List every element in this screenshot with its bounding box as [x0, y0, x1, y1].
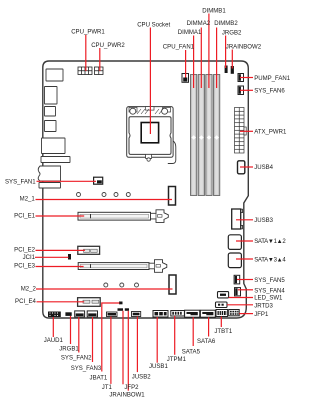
callout line SYS_FAN6	[240, 89, 253, 91]
DIMM slot DIMMB2	[214, 75, 220, 196]
connector SYS_FAN3	[87, 311, 97, 317]
svg-text:PCI_E2: PCI_E2	[14, 248, 35, 254]
M2_1 standoff holes	[77, 193, 131, 197]
connector JT1	[107, 312, 118, 317]
callout line JUSB4	[240, 166, 253, 168]
DIMM slot DIMMA2	[198, 75, 204, 196]
board outline	[43, 61, 249, 318]
svg-text:DIMMB2: DIMMB2	[214, 21, 238, 27]
callout line JTPM1	[174, 316, 176, 355]
svg-text:SATA▼1▲2: SATA▼1▲2	[254, 239, 286, 245]
callout line JRAINBOW2	[231, 50, 233, 69]
io block 7 audio	[38, 166, 60, 181]
connector JCI1	[68, 254, 71, 260]
connector SYS_FAN5	[234, 275, 240, 284]
svg-text:JRAINBOW1: JRAINBOW1	[109, 393, 145, 399]
callout line SYS_FAN1	[37, 180, 97, 182]
svg-text:JTPM1: JTPM1	[167, 357, 187, 363]
callout line SATA34	[236, 258, 253, 260]
svg-text:SYS_FAN1: SYS_FAN1	[5, 180, 36, 186]
svg-text:PCI_E4: PCI_E4	[15, 299, 36, 305]
svg-text:SATA5: SATA5	[182, 350, 201, 356]
callout line DIMMA1	[193, 36, 195, 89]
svg-text:SYS_FAN5: SYS_FAN5	[254, 278, 285, 284]
callout line PCI_E4	[37, 301, 85, 303]
callout line CPU_FAN1	[185, 50, 187, 78]
callout line LED_SW1	[229, 297, 253, 299]
svg-text:JRTD3: JRTD3	[254, 303, 273, 309]
callout line JRTD3	[227, 304, 253, 306]
connector CPU_PWR2	[95, 67, 104, 75]
svg-text:JRGB1: JRGB1	[59, 347, 79, 353]
connector JUSB4	[238, 161, 245, 174]
svg-text:CPU_PWR2: CPU_PWR2	[91, 43, 125, 49]
svg-text:JRAINBOW2: JRAINBOW2	[226, 45, 262, 51]
svg-text:PUMP_FAN1: PUMP_FAN1	[254, 76, 291, 82]
callout line JUSB2	[136, 317, 138, 373]
connector CPU_PWR1	[78, 67, 92, 75]
io block 6	[41, 157, 70, 163]
svg-text:CPU_PWR1: CPU_PWR1	[71, 29, 105, 35]
callout line JFP2	[122, 311, 124, 385]
svg-text:PCI_E1: PCI_E1	[14, 213, 35, 219]
connector JRAINBOW1	[125, 308, 129, 311]
callout line DIMMB1	[208, 14, 210, 89]
callout line PCI_E2	[36, 249, 85, 251]
connector JRAINBOW2	[231, 66, 234, 74]
connector CPU_FAN1	[182, 74, 189, 83]
connector SYS_FAN2	[75, 311, 85, 317]
SATA port SATA12	[228, 235, 241, 250]
svg-text:SYS_FAN4: SYS_FAN4	[254, 289, 285, 295]
connector JUSB3	[232, 209, 243, 229]
svg-text:JFP1: JFP1	[254, 312, 269, 318]
svg-text:JTBT1: JTBT1	[214, 329, 232, 335]
callout line JFP1	[239, 313, 253, 315]
callout line PCI_E1	[36, 215, 85, 217]
connector JFP1	[229, 310, 240, 316]
svg-text:SYS_FAN6: SYS_FAN6	[254, 89, 285, 95]
svg-text:PCI_E3: PCI_E3	[14, 264, 35, 270]
SATA port SATA34	[228, 253, 241, 268]
SATA port SATA5	[185, 310, 200, 317]
connector JRGB1	[65, 312, 71, 316]
svg-text:LED_SW1: LED_SW1	[254, 296, 283, 302]
svg-text:JBAT1: JBAT1	[90, 376, 108, 382]
svg-text:CPU_FAN1: CPU_FAN1	[163, 44, 195, 50]
callout line DIMMB2	[216, 28, 218, 89]
svg-text:CPU Socket: CPU Socket	[137, 22, 170, 28]
cpu socket U1	[127, 107, 176, 164]
io block 3	[45, 107, 56, 117]
svg-text:M2_2: M2_2	[21, 286, 37, 292]
connector M2_1	[169, 187, 176, 206]
DIMM slot DIMMB1	[206, 75, 212, 196]
M2_2 standoff holes	[104, 283, 139, 287]
connector JUSB1	[153, 311, 168, 318]
callout line JUSB1	[156, 317, 158, 363]
connector SYS_FAN1	[94, 177, 103, 184]
slot PCI_E2	[78, 246, 100, 254]
connector ATX_PWR1	[235, 108, 247, 154]
connector JRTD3	[216, 302, 228, 308]
svg-text:JUSB4: JUSB4	[254, 165, 273, 171]
callout line SYS_FAN3	[92, 317, 94, 362]
connector JAUD1	[48, 312, 61, 318]
io block 1	[46, 69, 63, 81]
SATA port SATA6	[200, 310, 215, 317]
callout line CPU Socket	[149, 28, 151, 135]
connector JUSB2	[132, 312, 141, 317]
callout line SYS_FAN2	[78, 317, 80, 353]
slot PCI_E4	[78, 298, 101, 307]
connector JRGB2	[225, 66, 228, 74]
io block 5	[42, 138, 66, 154]
io block 2	[45, 87, 58, 105]
slot PCI_E1	[78, 210, 168, 223]
connector JTBT1	[216, 310, 228, 317]
svg-text:JFP2: JFP2	[124, 385, 139, 391]
io block 8	[39, 183, 61, 189]
svg-text:M2_1: M2_1	[20, 197, 36, 203]
connector SYS_FAN4	[235, 288, 241, 296]
svg-text:JUSB1: JUSB1	[149, 364, 168, 370]
connector JBAT1	[119, 302, 123, 305]
svg-text:DIMMA1: DIMMA1	[178, 30, 202, 36]
callout line M2_2	[36, 288, 173, 290]
svg-text:DIMMB1: DIMMB1	[202, 8, 226, 14]
callout line PCI_E3	[36, 266, 84, 268]
svg-text:ATX_PWR1: ATX_PWR1	[254, 130, 287, 136]
callout line SATA5	[192, 317, 194, 346]
connector M2_2	[169, 275, 176, 294]
callout line SATA6	[208, 317, 210, 336]
svg-text:SYS_FAN3: SYS_FAN3	[71, 366, 102, 372]
callout line ATX_PWR1	[240, 130, 253, 132]
callout line JUSB3	[236, 219, 253, 221]
connector PUMP_FAN1	[238, 74, 244, 82]
svg-text:DIMMA2: DIMMA2	[187, 21, 211, 27]
callout line JBAT1	[102, 303, 120, 372]
callout line JAUD1	[52, 317, 54, 337]
callout line JRGB1	[70, 316, 72, 344]
callout line JCI1	[35, 256, 69, 258]
svg-text:JUSB2: JUSB2	[132, 375, 151, 381]
svg-text:SATA6: SATA6	[197, 339, 216, 345]
connector JFP2	[118, 308, 124, 311]
callout line SYS_FAN5	[237, 279, 253, 281]
callout line JT1	[110, 317, 112, 384]
svg-text:SATA▼3▲4: SATA▼3▲4	[254, 257, 286, 263]
callout line CPU_PWR1	[85, 35, 87, 72]
slot PCI_E3	[78, 260, 167, 273]
svg-text:JT1: JT1	[102, 385, 113, 391]
svg-text:SYS_FAN2: SYS_FAN2	[61, 356, 92, 362]
connector LED_SW1	[218, 292, 229, 298]
svg-text:JUSB3: JUSB3	[254, 218, 273, 224]
io block 4	[45, 121, 57, 132]
callout line DIMMA2	[200, 28, 202, 89]
callout line JTBT1	[220, 317, 222, 328]
callout line M2_1	[36, 199, 173, 201]
callout line PUMP_FAN1	[240, 77, 253, 79]
connector SYS_FAN6	[238, 86, 244, 95]
connector JTPM1	[171, 311, 185, 317]
callout line CPU_PWR2	[99, 48, 101, 71]
callout line SYS_FAN4	[238, 289, 253, 291]
DIMM slot DIMMA1	[191, 75, 197, 196]
callout line JRGB2	[225, 36, 227, 69]
svg-text:JAUD1: JAUD1	[44, 338, 64, 344]
callout line SATA12	[236, 240, 253, 242]
callout line JRAINBOW1	[127, 311, 129, 391]
svg-text:JCI1: JCI1	[23, 255, 36, 261]
svg-text:JRGB2: JRGB2	[222, 31, 242, 37]
